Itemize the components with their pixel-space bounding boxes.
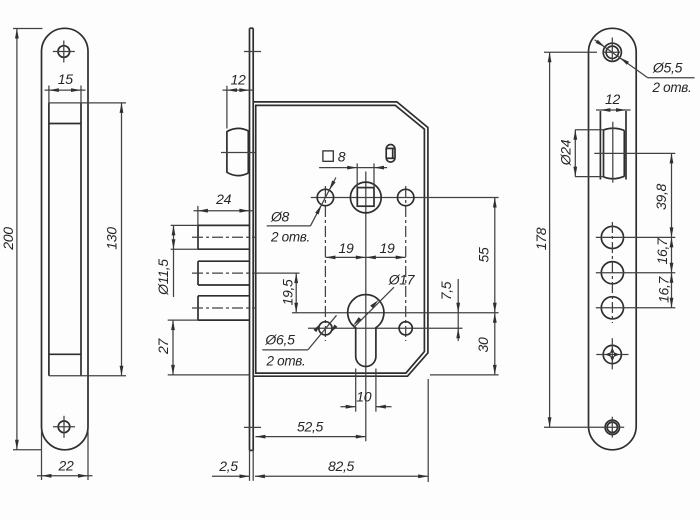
bolt hole 3 (bottom circle)	[596, 297, 676, 319]
svg-text:27: 27	[155, 338, 171, 355]
right view: top screw hole (countersunk, two circles with center mark)	[603, 38, 621, 63]
cross-recess fixing hole with center mark	[596, 338, 628, 369]
svg-text:22: 22	[58, 458, 74, 474]
right view: latch window side lines	[600, 111, 626, 180]
dimension 16,7 (bolt hole 2 to 3)	[656, 273, 674, 308]
handle screw hole left (diameter 8)	[317, 189, 333, 205]
dimension diameter 11,5 (deadbolt pin diameter)	[155, 225, 198, 297]
left view: top screw hole with center mark	[53, 41, 75, 63]
right hole column center line (dash-dot)	[405, 186, 407, 341]
left view: recessed slot (two side lines and end lines)	[49, 103, 81, 376]
svg-text:2 отв.: 2 отв.	[265, 354, 305, 369]
label diameter 8, 2 holes with leader to left hole	[267, 178, 336, 245]
right view: latch bolt seen in window (side lines and curved faces)	[604, 128, 625, 178]
latch center line	[221, 152, 256, 154]
svg-text:Ø6,5: Ø6,5	[264, 332, 295, 348]
bolt hole 1 (top circle)	[596, 226, 676, 248]
svg-text:8: 8	[338, 148, 346, 164]
spindle / cylinder vertical center line	[365, 172, 367, 442]
svg-text:39,8: 39,8	[653, 183, 669, 210]
dimension 55 (upper row to cylinder center)	[476, 198, 497, 313]
lower hole row center line	[308, 327, 463, 329]
svg-text:2,5: 2,5	[218, 458, 238, 474]
square 8 spindle dimension with square symbol label	[319, 148, 387, 187]
dimension 39,8 (latch axis to first bolt hole)	[653, 153, 673, 237]
left view: bottom screw hole with center mark	[53, 416, 75, 438]
dimension 19,5 (pin 2 center to cylinder center)	[280, 273, 299, 313]
dimension 24 (deadbolt throw)	[194, 191, 254, 225]
svg-text:2 отв.: 2 отв.	[270, 229, 310, 244]
svg-text:52,5: 52,5	[297, 418, 324, 434]
svg-text:200: 200	[0, 227, 16, 251]
extension line below case right edge	[427, 379, 429, 482]
dimension 22 (faceplate width, bottom left)	[37, 431, 93, 480]
dimension 15 (recess width)	[45, 71, 86, 104]
middle view: face strip (edge-on faceplate) with end caps	[250, 28, 254, 450]
handle screw hole right (diameter 8)	[398, 189, 414, 205]
svg-text:19: 19	[380, 240, 395, 256]
bolt hole 2 (middle circle)	[596, 262, 676, 284]
extension of case bottom line to the right	[430, 374, 499, 376]
svg-text:Ø11,5: Ø11,5	[155, 259, 171, 296]
dimension 7,5 (cylinder center to fixing hole row)	[438, 279, 460, 341]
extension lines below faceplate strip	[250, 450, 254, 480]
left hole column center line (dash-dot)	[324, 186, 326, 341]
middle view: lock case outer contour (chamfered corners)	[253, 102, 428, 376]
dimension 130 (recess length)	[49, 103, 126, 376]
svg-text:55: 55	[476, 247, 492, 262]
dimension 27 (pin 3 to case bottom)	[155, 320, 198, 375]
fixing screw hole left (diameter 6,5)	[319, 322, 332, 335]
left view: flat faceplate outline (stadium shape)	[42, 28, 89, 450]
dimension 178 (screw hole spacing, right view)	[533, 52, 624, 427]
fixing screw hole right (diameter 6,5)	[399, 322, 412, 335]
svg-text:15: 15	[58, 71, 73, 87]
svg-text:130: 130	[104, 227, 120, 250]
svg-text:19: 19	[339, 240, 354, 256]
dimension 19 (left hole to spindle center)	[325, 240, 365, 259]
label diameter 5,5, 2 holes with leader	[595, 40, 695, 95]
dimension 30 (cylinder center to case bottom)	[475, 313, 497, 375]
middle view: screw hole center tick, top	[244, 51, 261, 53]
label diameter 6,5, 2 holes with leader to left fixing hole	[262, 315, 337, 368]
deadbolt pin 2 center line extended right for 19,5 dimension	[192, 272, 300, 274]
svg-text:Ø5,5: Ø5,5	[652, 59, 683, 75]
dimension 2,5 (faceplate thickness)	[212, 458, 250, 478]
spindle hub circle with square 8 hole	[350, 182, 381, 213]
deadbolt pin 3 (bottom prong)	[198, 296, 250, 320]
svg-text:30: 30	[475, 337, 491, 352]
svg-text:19,5: 19,5	[280, 279, 296, 306]
middle view: lock case inner contour	[256, 105, 425, 373]
middle view: latch bolt (side view, curved faces)	[227, 128, 248, 175]
deadbolt pin 1 (top prong)	[198, 225, 250, 249]
latch center line extended right for 39,8 dimension	[594, 152, 675, 154]
dimension 12 (latch window width, right view)	[596, 91, 631, 112]
dimension 10 (cylinder slot width)	[341, 369, 392, 412]
dimension 16,7 (bolt hole 1 to 2)	[654, 237, 673, 273]
cylinder horizontal center line	[292, 312, 499, 314]
dimension 200 (overall faceplate height, left)	[0, 29, 43, 450]
svg-text:10: 10	[356, 389, 371, 405]
deadbolt pin 3 center line	[192, 307, 256, 309]
dimension 52,5 (faceplate to cylinder axis)	[255, 418, 365, 438]
svg-text:178: 178	[533, 227, 549, 250]
svg-text:2 отв.: 2 отв.	[651, 80, 691, 95]
svg-text:7,5: 7,5	[438, 281, 454, 300]
svg-text:12: 12	[231, 71, 246, 87]
bolt holes vertical center line (dash-dot)	[611, 222, 613, 323]
dimension 19 (spindle center to right hole)	[366, 240, 406, 259]
euro profile cylinder cut-out (keyhole shape)	[348, 295, 384, 367]
svg-text:Ø17: Ø17	[388, 271, 416, 287]
svg-text:16,7: 16,7	[654, 237, 670, 265]
upper hole row center line	[311, 197, 499, 199]
dimension diameter 24 (latch height)	[558, 130, 604, 177]
extension of case bottom line to the left	[168, 374, 250, 376]
svg-text:Ø24: Ø24	[558, 139, 574, 166]
svg-text:24: 24	[215, 191, 231, 207]
svg-text:82,5: 82,5	[328, 458, 355, 474]
small oval pin hole at top right of case	[386, 145, 395, 163]
svg-text:Ø8: Ø8	[270, 208, 290, 224]
middle view: screw hole center tick, bottom	[244, 426, 261, 428]
right view: latch vertical center line	[612, 122, 614, 183]
label diameter 17 with diagonal leader through cylinder circle	[353, 271, 416, 327]
right view: faceplate front outline (stadium shape)	[589, 28, 637, 450]
svg-text:12: 12	[605, 91, 620, 107]
right view: bottom screw hole (two circles with center mark)	[605, 417, 619, 438]
dimension 12 (latch width, middle view)	[223, 71, 254, 128]
svg-text:16,7: 16,7	[656, 275, 672, 303]
deadbolt pin 2 (middle prong)	[198, 261, 250, 285]
dimension 82,5 (case depth)	[255, 458, 428, 478]
deadbolt pin 1 center line	[192, 236, 256, 238]
